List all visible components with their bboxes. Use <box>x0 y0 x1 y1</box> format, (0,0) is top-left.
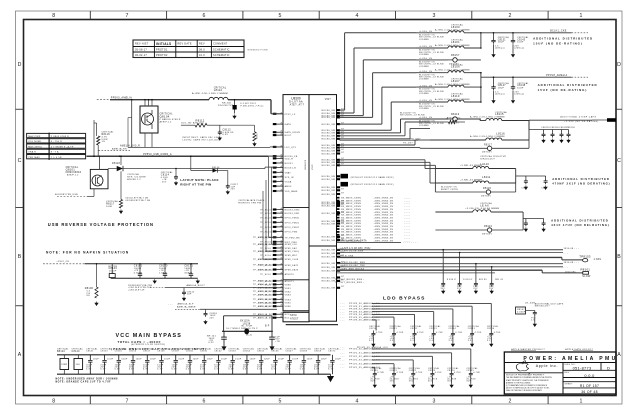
svg-text:REV: REV <box>199 43 205 46</box>
svg-text:25V: 25V <box>210 317 215 319</box>
svg-text:TP_AMELIA_SCL0: TP_AMELIA_SCL0 <box>253 287 276 290</box>
svg-text:C8167: C8167 <box>285 351 293 353</box>
svg-text:- - -: - - - <box>340 303 345 305</box>
svg-text:BUCK0_SW: BUCK0_SW <box>322 237 336 239</box>
svg-text:10UF: 10UF <box>307 358 314 360</box>
svg-text:ADDITIONAL DISTRIBUTED: ADDITIONAL DISTRIBUTED <box>552 177 610 181</box>
svg-text:VSS5: VSS5 <box>285 303 292 305</box>
svg-text:- - - -: - - - - <box>404 229 410 231</box>
svg-text:C8156: C8156 <box>129 351 137 353</box>
IC lower-left pin nets <box>253 236 276 319</box>
svg-text:C8215: C8215 <box>468 328 476 330</box>
svg-text:25V: 25V <box>231 189 236 191</box>
inductor L8110b <box>435 162 515 169</box>
svg-text:3.3: 3.3 <box>449 340 453 342</box>
svg-text:1%: 1% <box>102 141 106 143</box>
svg-text:PGOOD/TVS: PGOOD/TVS <box>218 105 234 107</box>
svg-text:+XNN_XNNX_XN: +XNN_XNNX_XN <box>374 220 394 222</box>
capacitor C8143 group1 b <box>511 32 530 57</box>
svg-text:C: C <box>18 158 22 164</box>
svg-text:(20%au): (20%au) <box>495 93 505 95</box>
svg-text:C8213: C8213 <box>429 328 437 330</box>
svg-text:BLDR/8YY3B_USB: BLDR/8YY3B_USB <box>55 194 78 196</box>
svg-text:NR/XX/LDO?: NR/XX/LDO? <box>535 306 551 308</box>
svg-text:35V: 35V <box>473 288 478 290</box>
svg-text:6.3V: 6.3V <box>100 369 106 371</box>
svg-text:+XNN_XNNX_XN: +XNN_XNNX_XN <box>374 206 394 208</box>
svg-text:NOTICE OF PROPRIETARY PROPERT: NOTICE OF PROPRIETARY PROPERTY: <box>506 374 545 377</box>
svg-text:+XNN_XNNX_XN: +XNN_XNNX_XN <box>374 232 394 234</box>
svg-text:6.3V: 6.3V <box>271 369 277 371</box>
svg-text:ADDITIONAL DISTRIBUTED: ADDITIONAL DISTRIBUTED <box>538 83 598 87</box>
resistor R8113 vertical <box>222 125 259 146</box>
svg-text:+LODL_LN: +LODL_LN <box>419 71 432 73</box>
svg-text:- - -: - - - <box>340 360 345 362</box>
svg-text:1810.08 - - -: 1810.08 - - - <box>564 262 580 264</box>
svg-text:10UF: 10UF <box>150 358 157 360</box>
svg-text:R8119: R8119 <box>451 113 460 116</box>
capacitor group4 a <box>516 176 528 190</box>
wire left branch down from rail <box>128 99 133 148</box>
svg-text:25V: 25V <box>162 181 167 183</box>
svg-text:- - - -: - - - - <box>404 198 410 200</box>
svg-text:+LODL_LN: +LODL_LN <box>419 100 432 102</box>
capacitor C8155 <box>543 130 545 133</box>
note additional distributed group5 <box>551 219 609 228</box>
svg-text:D8114: D8114 <box>212 167 220 169</box>
svg-text:4.7UF: 4.7UF <box>454 372 461 374</box>
svg-text:LXDNNE: LXDNNE <box>419 39 429 41</box>
svg-text:SYS_IN: SYS_IN <box>285 177 294 179</box>
svg-text:1810.08C: 1810.08C <box>565 271 576 273</box>
capacitor C8155 <box>115 347 128 374</box>
svg-text:0.33UF: 0.33UF <box>517 312 526 314</box>
svg-text:XN_NNXX_XXNN: XN_NNXX_XXNN <box>341 215 361 217</box>
wire L8138 loop top <box>224 316 272 332</box>
svg-text:AMELIA_SLP: AMELIA_SLP <box>178 302 194 305</box>
svg-text:VRA R: VRA R <box>28 151 36 154</box>
svg-text:ATE?, AT.?: ATE?, AT.? <box>290 103 305 106</box>
svg-text:XN_NNXX_XXNN: XN_NNXX_XXNN <box>341 223 361 225</box>
svg-text:C88158: C88158 <box>566 127 575 129</box>
capacitor C8160 <box>186 347 199 374</box>
wire staircase top group <box>339 33 416 133</box>
svg-text:+XNN_XNNX_XN: +XNN_XNNX_XN <box>374 240 394 242</box>
svg-text:10UF: 10UF <box>121 358 128 360</box>
capacitor C8212 LDO1 <box>410 325 424 346</box>
capacitor C8164 <box>243 347 256 374</box>
capacitor C8324 LDO2 <box>447 367 461 387</box>
svg-text:4.7UF: 4.7UF <box>455 332 462 334</box>
svg-text:+XNN_XNNX_XN: +XNN_XNNX_XN <box>374 229 394 231</box>
capacitor C8116 <box>175 306 277 324</box>
capacitor C8210 LDO1 <box>369 325 383 346</box>
svg-text:BUCK3_SW1: BUCK3_SW1 <box>285 213 301 215</box>
capacitor C8117 <box>226 171 239 195</box>
capacitor bus drop 4 <box>489 266 494 293</box>
svg-text:C8155: C8155 <box>115 351 123 353</box>
resistor R8101 row <box>337 267 592 278</box>
svg-text:TP_AMELIA_SCL0: TP_AMELIA_SCL0 <box>253 302 276 305</box>
svg-text:Apple Inc.: Apple Inc. <box>536 364 558 368</box>
svg-text:- - -: - - - <box>340 356 345 358</box>
svg-text:VOUT: VOUT <box>312 164 314 170</box>
svg-text:LXDNNE: LXDNNE <box>419 79 429 81</box>
svg-text:- - -: - - - <box>340 353 345 355</box>
capacitor bus drop 1 <box>441 249 446 294</box>
svg-text:(20%au): (20%au) <box>515 93 525 95</box>
svg-text:BUCK0_SW: BUCK0_SW <box>322 179 336 181</box>
svg-text:C8165: C8165 <box>257 351 265 353</box>
capacitor C8156 <box>552 130 554 133</box>
LDO bypass group 1 <box>340 302 501 346</box>
svg-text:L8111: L8111 <box>482 175 491 179</box>
capacitor C8162 <box>214 347 227 374</box>
inductor L8107 <box>416 78 481 95</box>
Q8101 label <box>66 166 82 177</box>
diode D8113 zener <box>233 100 237 114</box>
svg-text:XN_NNXX_XXNN: XN_NNXX_XXNN <box>341 217 361 219</box>
svg-text:881 85: 881 85 <box>479 279 488 281</box>
svg-text:+LODL_LN: +LODL_LN <box>419 117 432 119</box>
svg-text:XN_NNXX_XXNN: XN_NNXX_XXNN <box>341 209 361 211</box>
svg-text:BUCK1_B: BUCK1_B <box>285 168 297 170</box>
wire bus row5 <box>337 265 569 269</box>
svg-text:3.3: 3.3 <box>369 340 373 342</box>
capacitor C8165 <box>257 347 270 374</box>
svg-text:BUCK1: BUCK1 <box>285 163 294 165</box>
svg-text:BUCK0_SW: BUCK0_SW <box>322 110 336 112</box>
svg-text:C8y: C8y <box>541 188 546 190</box>
svg-text:4.7UF: 4.7UF <box>416 372 423 374</box>
D8113 value text <box>218 103 264 108</box>
svg-text:10UF: 10UF <box>193 358 200 360</box>
svg-text:C8140: C8140 <box>72 351 81 353</box>
svg-text:SPMI_VDDQ: SPMI_VDDQ <box>285 251 300 253</box>
svg-text:BTLN_SNS: BTLN_SNS <box>340 256 354 258</box>
svg-text:C8169: C8169 <box>314 351 322 353</box>
wire LDO2 net row 3 <box>340 355 432 370</box>
svg-text:+C8/LDL8Y.2F: +C8/LDL8Y.2F <box>128 290 145 292</box>
svg-text:8: 8 <box>52 398 55 404</box>
svg-text:ADDITIONAL 470NF CAPS: ADDITIONAL 470NF CAPS <box>560 116 596 119</box>
svg-text:+LODL_LN: +LODL_LN <box>419 58 432 60</box>
svg-text:C8164: C8164 <box>243 351 251 353</box>
svg-text:36 OF 48: 36 OF 48 <box>581 390 598 394</box>
svg-text:TP_AMELIA_SCL0: TP_AMELIA_SCL0 <box>253 305 276 308</box>
svg-text:C8211: C8211 <box>390 328 398 330</box>
svg-text:L8101: L8101 <box>451 40 460 44</box>
svg-text:REV DATE: REV DATE <box>178 43 192 46</box>
svg-text:BUCK0_SW: BUCK0_SW <box>322 147 336 149</box>
svg-text:ADDITIONAL DISTRIBUTED: ADDITIONAL DISTRIBUTED <box>533 37 593 41</box>
svg-text:100: 100 <box>76 364 81 366</box>
svg-text:LDO_QT3: LDO_QT3 <box>285 147 297 149</box>
resistor R8116 <box>97 123 115 156</box>
svg-text:1.5: 1.5 <box>531 320 535 322</box>
svg-text:TP_AMELIA_SCL0: TP_AMELIA_SCL0 <box>253 283 276 286</box>
svg-text:AMELIA_WAKE: AMELIA_WAKE <box>177 306 196 309</box>
wire bus row4 <box>337 262 580 264</box>
svg-text:XN_NNXX_XXNN: XN_NNXX_XXNN <box>341 226 361 228</box>
junction at L8112 output <box>234 99 236 101</box>
svg-text:6.3V: 6.3V <box>328 369 334 371</box>
svg-text:+1.8/8.1/4.08_SNS: +1.8/8.1/4.08_SNS <box>340 251 364 253</box>
svg-text:VSS4: VSS4 <box>285 299 292 301</box>
svg-text:+X.NNL-XX MMMM: +X.NNL-XX MMMM <box>460 165 482 167</box>
svg-text:C8210: C8210 <box>369 328 377 330</box>
ground at bypass rail end <box>328 374 334 381</box>
revision table <box>133 40 268 58</box>
ground napkin 1 <box>153 279 156 283</box>
svg-text:BOOT: BOOT <box>285 135 292 137</box>
svg-text:S/R.D/LDO?: S/R.D/LDO? <box>480 159 495 161</box>
svg-text:DNTCEV: DNTCEV <box>482 152 492 154</box>
svg-text:BUCK0_SW: BUCK0_SW <box>322 213 336 215</box>
svg-text:BUCK0_SW: BUCK0_SW <box>322 117 336 119</box>
wire LDO1 net row 4 <box>340 310 434 330</box>
svg-text:A: A <box>18 352 22 358</box>
svg-text:C8168: C8168 <box>300 351 308 353</box>
inductor L8118 <box>435 202 523 212</box>
svg-text:15UF: 15UF <box>498 87 505 89</box>
svg-text:4.7UF: 4.7UF <box>473 372 480 374</box>
svg-text:D: D <box>617 62 621 68</box>
svg-text:NOTE: UNDERUSED AWAY DSR / 10U: NOTE: UNDERUSED AWAY DSR / 10UNM8 <box>56 378 119 381</box>
svg-text:XN_NNXX_XXNN: XN_NNXX_XXNN <box>341 200 361 202</box>
net stub rows under bus <box>335 279 364 284</box>
svg-text:R8101: R8101 <box>581 267 591 271</box>
svg-text:LXDNNE: LXDNNE <box>419 54 429 56</box>
svg-text:4.7UF: 4.7UF <box>417 332 424 334</box>
wire LDO1 net row 7 <box>340 319 380 331</box>
svg-text:C8153: C8153 <box>100 351 108 353</box>
svg-text:BUCK0_SW: BUCK0_SW <box>322 139 336 141</box>
svg-text:10UF: 10UF <box>292 358 299 360</box>
svg-text:VSS0: VSS0 <box>285 284 292 286</box>
capacitor C8153 <box>100 347 113 374</box>
inductor L8106 <box>416 63 481 80</box>
svg-text:35V: 35V <box>489 288 494 290</box>
capacitor C8158 <box>157 347 170 374</box>
svg-text:ATEST: ATEST <box>290 318 299 321</box>
capacitor group5 a <box>523 219 528 232</box>
svg-text:- - -: - - - <box>340 320 345 322</box>
svg-text:8 ~750 R: 8 ~750 R <box>51 141 62 143</box>
capacitor C8167 <box>285 347 298 374</box>
svg-text:6.3V: 6.3V <box>143 369 149 371</box>
svg-text:Q8104: Q8104 <box>160 115 170 119</box>
svg-text:05/SFDX8YY3B-7 DB: 05/SFDX8YY3B-7 DB <box>126 200 151 202</box>
bypass notes <box>56 378 119 384</box>
svg-text:- - -: - - - <box>340 347 345 349</box>
svg-text:AGREES TO THE FOLLOWING:: AGREES TO THE FOLLOWING: <box>506 381 531 384</box>
svg-text:+1.8/8.1/4.08C_SNS: +1.8/8.1/4.08C_SNS <box>340 262 365 264</box>
R8117 note text <box>126 198 151 202</box>
svg-text:A-.NNL.2-NL-1.NNL.2 MMMM: A-.NNL.2-NL-1.NNL.2 MMMM <box>192 92 228 95</box>
svg-text:BUCK0_SW: BUCK0_SW <box>322 153 336 155</box>
svg-text:6.3V: 6.3V <box>300 369 306 371</box>
svg-text:6.3V: 6.3V <box>223 134 229 136</box>
svg-text:C8212: C8212 <box>410 328 418 330</box>
svg-text:TP_OUT_BUCK4_SW1 -: TP_OUT_BUCK4_SW1 - <box>335 282 364 284</box>
svg-text:GPIO_PMU0: GPIO_PMU0 <box>285 218 300 220</box>
svg-text:TP_AMELIA_SCL0: TP_AMELIA_SCL0 <box>253 250 276 253</box>
svg-text:7 /- 4 5R: 7 /- 4 5R <box>51 157 62 159</box>
title block <box>504 352 616 394</box>
capacitor C8112 <box>218 125 234 140</box>
svg-text:6: 6 <box>203 13 206 19</box>
wire GPIO row right <box>340 138 422 144</box>
note additional 470nf group3 <box>560 116 598 123</box>
svg-text:6.3V: 6.3V <box>172 369 178 371</box>
svg-text:GATE: GATE <box>285 123 292 126</box>
svg-text:XN_NNXX_XXNN: XN_NNXX_XXNN <box>341 232 361 234</box>
svg-text:- - -: - - - <box>340 306 345 308</box>
svg-text:C: C <box>617 158 621 164</box>
svg-text:- - - -: - - - - <box>404 235 410 237</box>
svg-text:VCC MAIN BYPASS: VCC MAIN BYPASS <box>116 333 182 339</box>
svg-text:BUCK0_SW: BUCK0_SW <box>322 267 336 269</box>
svg-text:(S-4): (S-4) <box>246 334 252 336</box>
capacitor C8166 <box>271 347 284 374</box>
svg-text:6.3V: 6.3V <box>209 342 215 344</box>
svg-text:1UF: 1UF <box>187 294 192 296</box>
U8100 right pin stubs <box>337 109 341 289</box>
svg-text:R8157: R8157 <box>451 54 460 57</box>
svg-text:TP_AMELIA_SCL0: TP_AMELIA_SCL0 <box>253 268 276 271</box>
wire Q8104 gate feeds <box>144 99 153 106</box>
svg-text:MAX PWR: MAX PWR <box>28 135 41 138</box>
capacitor C8147 group2 a <box>491 76 510 103</box>
svg-text:3: 3 <box>433 13 436 19</box>
svg-text:AMELIA_EN: AMELIA_EN <box>112 148 127 151</box>
svg-text:L8116: L8116 <box>496 131 505 135</box>
svg-text:PP1V8_XX_AMELIA_LDO: PP1V8_XX_AMELIA_LDO <box>357 346 388 349</box>
svg-text:A-.NNL.2-5%-1.NNL.2 MMMM: A-.NNL.2-5%-1.NNL.2 MMMM <box>435 44 470 47</box>
svg-text:ATE/SD 1.2: ATE/SD 1.2 <box>127 178 141 181</box>
svg-text:PWR: PWR <box>62 364 68 366</box>
resistor R8107 ldo right <box>516 303 564 327</box>
svg-text:10UF: 10UF <box>164 358 171 360</box>
capacitor C8169 <box>314 347 327 374</box>
wire napkin rail <box>43 263 198 265</box>
capacitor C8211 LDO1 <box>390 325 404 346</box>
resistor R8418 row <box>400 113 465 124</box>
svg-text:B P: B P <box>265 326 270 328</box>
svg-text:'8 814 8': '8 814 8' <box>463 279 474 281</box>
wire staircase group4 <box>339 160 435 192</box>
svg-text:6.3V: 6.3V <box>285 369 291 371</box>
svg-text:VSS1: VSS1 <box>285 288 292 290</box>
svg-text:15UF: 15UF <box>498 42 505 44</box>
capacitor C8163 <box>229 347 242 374</box>
svg-text:GATE_DRIVE: GATE_DRIVE <box>285 131 301 134</box>
svg-text:BUCK0_SW: BUCK0_SW <box>322 263 336 265</box>
svg-text:10UF: 10UF <box>235 358 242 360</box>
svg-text:+XNN_XNNX_XN: +XNN_XNNX_XN <box>374 237 394 239</box>
edge connector right y120 <box>529 118 616 122</box>
svg-text:C8160: C8160 <box>186 351 194 353</box>
svg-text:- - -: - - - <box>564 253 569 255</box>
inductor L8115 <box>457 111 529 121</box>
wire LDO2 net row 5 <box>340 363 394 371</box>
svg-text:R8122: R8122 <box>484 226 493 228</box>
inductor L8111 <box>435 169 515 184</box>
svg-text:+7R: +7R <box>275 341 280 343</box>
wire staircase into IC left <box>263 156 277 259</box>
capacitor C8115 <box>150 284 277 301</box>
svg-text:TP_AMELIA_SCL0: TP_AMELIA_SCL0 <box>253 243 276 246</box>
svg-text:R8120: R8120 <box>483 188 492 190</box>
svg-text:+XNN_XNNX_XN: +XNN_XNNX_XN <box>374 203 394 205</box>
svg-text:TP_AMELIA_SCL0: TP_AMELIA_SCL0 <box>253 294 276 297</box>
resistor R8117 below <box>106 171 123 213</box>
wire LDO2 net row 2 <box>340 352 452 371</box>
svg-text:TP_AMELIA_SCL0: TP_AMELIA_SCL0 <box>253 317 276 320</box>
svg-text:R8117: R8117 <box>484 144 492 146</box>
svg-text:SPIM: SPIM <box>290 315 297 317</box>
VCC MAIN BYPASS title <box>111 333 207 351</box>
svg-text:6.3V: 6.3V <box>186 369 192 371</box>
svg-text:1.8AV: 1.8AV <box>594 258 602 261</box>
svg-text:- - - -: - - - - <box>404 223 410 225</box>
svg-text:C8157: C8157 <box>143 351 151 353</box>
svg-text:+LODL_LN: +LODL_LN <box>419 85 432 87</box>
U8100 left pin labels <box>260 114 301 320</box>
svg-text:SPMI_CLK: SPMI_CLK <box>285 244 298 246</box>
svg-text:- - - - - - - -: - - - - - - - - <box>403 241 418 244</box>
net label block SPMI bus <box>337 197 411 242</box>
svg-text:(WITHOUT XXXX/1/2.5 SAME XXXX): (WITHOUT XXXX/1/2.5 SAME XXXX) <box>351 183 394 186</box>
svg-text:- - - -: - - - - <box>404 237 410 239</box>
test point TP8153 row <box>337 255 602 262</box>
svg-text:15UF (NO DE-RATING): 15UF (NO DE-RATING) <box>538 88 588 92</box>
Q8104 label <box>160 113 181 124</box>
svg-text:AMELIA_5V0_R: AMELIA_5V0_R <box>120 145 140 148</box>
svg-text:BUCK0_SW: BUCK0_SW <box>322 133 336 135</box>
svg-text:- - - -: - - - - <box>404 206 410 208</box>
svg-text:+XNN_XNNX_XN: +XNN_XNNX_XN <box>374 226 394 228</box>
capacitor C8170 <box>159 263 168 278</box>
svg-text:SM CNTRL_LX ELNN: SM CNTRL_LX ELNN <box>400 115 425 117</box>
text above title block <box>511 348 593 351</box>
svg-text:3.3: 3.3 <box>429 340 433 342</box>
svg-text:10UF: 10UF <box>107 358 114 360</box>
svg-text:+1.8/8.1/4.08.08C_PMU: +1.8/8.1/4.08.08C_PMU <box>340 248 371 250</box>
svg-text:BUCK0_SW: BUCK0_SW <box>322 277 336 279</box>
svg-text:.: . <box>178 54 179 57</box>
svg-text:- - - -: - - - - <box>404 209 410 211</box>
svg-text:XN_NNXX_XXNN: XN_NNXX_XXNN <box>341 203 361 205</box>
sheet fields <box>565 384 600 394</box>
svg-text:SPMI_DAT: SPMI_DAT <box>285 247 298 250</box>
svg-text:BUCK0_SW: BUCK0_SW <box>322 257 336 259</box>
svg-text:+XNN_XNNX_XN: +XNN_XNNX_XN <box>374 209 394 211</box>
svg-text:LDO BYPASS: LDO BYPASS <box>383 296 425 302</box>
svg-text:RIGHT/TO THE PIN: RIGHT/TO THE PIN <box>238 202 261 204</box>
svg-text:3.3: 3.3 <box>487 340 491 342</box>
svg-text:10.0: 10.0 <box>199 54 205 57</box>
svg-text:GPIO_PMU1: GPIO_PMU1 <box>285 222 300 224</box>
LDO2 top dashed row <box>340 346 388 349</box>
svg-text:A-.NNL.2-5%-1.NNL.2 MMMM: A-.NNL.2-5%-1.NNL.2 MMMM <box>435 83 470 86</box>
svg-text:- - -: - - - <box>340 314 345 316</box>
wire LDO2 net row 6 <box>340 366 380 370</box>
svg-text:LDO/IC; CAPS OK/; LDO-LDO: LDO/IC; CAPS OK/; LDO-LDO <box>183 139 220 142</box>
svg-text:B: B <box>18 254 22 260</box>
ferrite B8140 left <box>57 348 69 375</box>
